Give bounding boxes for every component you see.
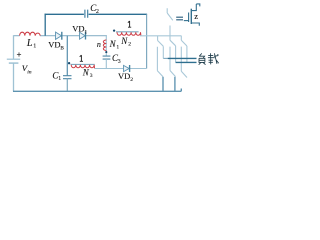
svg-text:3: 3: [90, 73, 93, 79]
node dot N3 winding: [68, 62, 70, 64]
svg-text:in: in: [27, 69, 32, 75]
svg-text:1: 1: [84, 30, 87, 36]
diode VD2: [124, 65, 130, 72]
svg-text:2: 2: [96, 9, 99, 15]
svg-text:1: 1: [33, 44, 36, 50]
switch S1 top: [158, 36, 164, 59]
load text fuzai: [199, 53, 219, 64]
transformer tertiary N3: [71, 63, 95, 65]
svg-text:1: 1: [58, 76, 61, 82]
label ratio 1 top: [128, 21, 131, 27]
transformer secondary N2: [116, 31, 139, 33]
plus sign: [17, 52, 21, 56]
wire riser C2/VD2 node: [146, 14, 148, 68]
diode VD1: [80, 32, 86, 40]
capacitor C2: [85, 10, 88, 18]
svg-text:VD: VD: [118, 71, 130, 81]
battery Vin: [7, 35, 20, 91]
switch S3 bottom: [181, 47, 187, 78]
inductor L1: [20, 32, 41, 35]
switch S2 top: [170, 26, 176, 63]
node dot N2 winding: [113, 29, 115, 31]
svg-text:1: 1: [116, 45, 119, 51]
wire main horizontal from source to transformer: [14, 35, 107, 37]
switch S3 top: [181, 36, 187, 63]
capacitor C1: [63, 76, 72, 79]
wire load line 1: [163, 57, 168, 59]
switch legend symbol: [167, 8, 173, 20]
wire bottom rail: [13, 89, 181, 92]
wire branch down to C1: [66, 36, 68, 76]
diode VDB: [56, 32, 62, 40]
svg-text:3: 3: [118, 59, 121, 65]
svg-text:B: B: [60, 45, 64, 51]
wire riser node A to top rail: [44, 14, 46, 36]
equals sign: [176, 17, 183, 20]
transformer primary N1 vertical: [105, 36, 107, 56]
wire bridge top rail: [140, 35, 181, 37]
svg-text:L: L: [26, 38, 33, 49]
capacitor C3: [103, 56, 111, 59]
svg-text:n: n: [97, 40, 101, 49]
label ratio 1 bottom: [80, 55, 83, 61]
wire from N3/C3 to VD2: [95, 68, 147, 70]
node dot N1 winding: [105, 51, 107, 53]
switch S2 bottom: [170, 47, 176, 77]
wire top rail: [45, 13, 148, 15]
svg-text:VD: VD: [48, 40, 60, 50]
svg-text:VD: VD: [72, 24, 84, 34]
IGBT symbol legend: [184, 4, 200, 26]
svg-text:N: N: [109, 39, 117, 49]
wire load line 2: [176, 61, 197, 63]
svg-text:2: 2: [128, 42, 131, 48]
switch S1 bottom: [157, 47, 163, 77]
svg-text:N: N: [82, 67, 90, 77]
svg-text:2: 2: [130, 77, 133, 83]
svg-text:z: z: [194, 11, 198, 21]
svg-text:N: N: [120, 36, 128, 46]
